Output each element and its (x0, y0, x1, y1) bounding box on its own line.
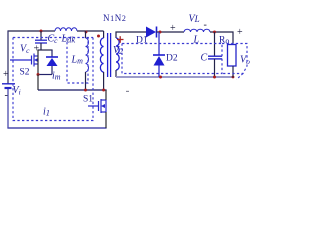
node: Lm junction red dot (85, 31, 88, 34)
inductor Ldk (leakage) (55, 28, 77, 31)
node: D2 junction red dot (159, 31, 162, 34)
transistor S1 (88, 99, 106, 113)
node: S2 source junction red dot (37, 73, 40, 76)
node: C junction red dot (213, 31, 216, 34)
inductor Lm (magnetizing) (86, 38, 89, 72)
stray mark (126, 91, 129, 92)
inductor L output (184, 29, 210, 32)
resistor Ro box (228, 45, 237, 67)
wire: N2 bottom lead (115, 70, 117, 77)
wire: Lm bottom lead (85, 72, 87, 90)
node: N1 bottom red dot (102, 89, 105, 92)
wire: primary mid rail (38, 89, 107, 91)
wire: clamp top link (37, 49, 52, 51)
wire: Cc branch lower (40, 43, 42, 50)
wire: N1 bottom lead (103, 72, 105, 90)
svg-text:Cc: Cc (48, 34, 59, 46)
loop im dashed box (67, 38, 88, 84)
svg-text:Vi: Vi (13, 85, 21, 97)
svg-text:Lm: Lm (71, 55, 84, 66)
wire: primary top rail (8, 30, 55, 32)
node: Lm bottom red dot (84, 89, 87, 92)
wire: L to Ro corner (210, 32, 233, 44)
svg-text:+: + (237, 27, 243, 38)
source Vi battery plates (2, 83, 15, 85)
wire: bottom return rail (7, 127, 106, 129)
diode: S2 anti-parallel clamp diode (51, 50, 53, 57)
wire: C top lead (214, 32, 216, 56)
wire: secondary bottom rail (116, 76, 233, 78)
wire: N2 top lead (116, 32, 148, 38)
svg-text:i1: i1 (43, 107, 50, 118)
svg-text:N1N2: N1N2 (103, 13, 126, 23)
label V2 red plus (117, 36, 124, 43)
diode D1 (146, 27, 156, 38)
svg-text:S2: S2 (20, 68, 30, 78)
loop secondary dashed box (122, 44, 222, 74)
svg-text:-: - (5, 90, 8, 101)
node: Ro bottom red dot (232, 76, 235, 79)
loop i1 dashed box (13, 38, 93, 121)
node: Cc junction red dot (40, 30, 43, 33)
wire: diode to S2 source link (38, 74, 52, 76)
transformer secondary winding N2 (116, 38, 119, 70)
node: N1 polarity dot (97, 35, 100, 38)
wire: top rail from Ldk to N1 (77, 30, 104, 32)
wire: Lm top lead (85, 31, 87, 38)
loop Vo dashed tail (237, 74, 244, 80)
wire: S2 down to mid rail (37, 75, 39, 91)
svg-text:C: C (201, 53, 208, 64)
wire: Cc branch upper (40, 31, 42, 40)
svg-text:Ldk: Ldk (61, 34, 76, 45)
transformer core (107, 33, 109, 77)
transistor S2 (10, 54, 38, 67)
svg-text:Vc: Vc (20, 44, 30, 56)
wire: left input rail (7, 30, 9, 83)
wire: D1 to L (157, 31, 185, 33)
diode D2 freewheeling (158, 32, 160, 55)
loop Vo dashed box (222, 44, 247, 74)
svg-text:D2: D2 (166, 54, 178, 64)
svg-text:Vo: Vo (240, 55, 250, 67)
node: C bottom red dot (213, 76, 216, 79)
svg-text:S1: S1 (83, 95, 93, 105)
capacitor Cc plates (35, 39, 47, 41)
svg-text:+: + (170, 23, 176, 34)
wire: Ro bottom lead (232, 66, 234, 78)
transformer primary winding N1 (100, 38, 103, 72)
node: D2 bottom red dot (159, 76, 162, 79)
transformer N1 top lead (103, 31, 105, 38)
svg-text:im: im (52, 71, 61, 82)
capacitor C plates (208, 55, 222, 57)
wire: C bottom lead (214, 59, 216, 77)
svg-text:VL: VL (189, 14, 200, 25)
svg-text:+: + (3, 69, 9, 80)
